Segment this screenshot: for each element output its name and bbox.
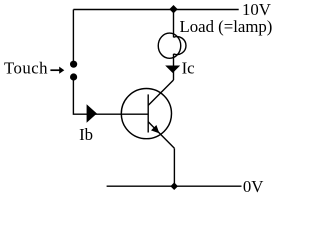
node: junction of emitter and 0V rail (diamond) bbox=[170, 182, 178, 190]
arrow: pointing at touch contacts, head bbox=[59, 67, 64, 74]
transistor Q1 base bar bbox=[147, 94, 149, 132]
svg-text:Load (=lamp): Load (=lamp) bbox=[180, 17, 273, 36]
svg-text:Ic: Ic bbox=[182, 58, 195, 77]
current arrow Ib (filled triangle on base wire) bbox=[87, 104, 97, 123]
transistor Q1 body circle bbox=[121, 89, 171, 139]
node: upper touch contact dot bbox=[70, 61, 77, 68]
node: junction of top rail and lamp branch (diamond) bbox=[169, 5, 177, 13]
lamp L1 bulb circle bbox=[158, 33, 181, 58]
wire: bottom 0V rail bbox=[107, 185, 242, 187]
wire: left branch from top rail down to upper touch contact bbox=[72, 10, 74, 65]
transistor Q1 emitter arrow bbox=[151, 125, 159, 133]
wire: lower touch contact down and right to transistor base bbox=[73, 77, 148, 114]
node: lower touch contact dot bbox=[70, 73, 77, 80]
svg-text:0V: 0V bbox=[243, 177, 264, 194]
transistor Q1 emitter lead (diagonal) bbox=[148, 122, 174, 149]
wire: lamp to transistor collector bbox=[173, 54, 175, 80]
wire: emitter down to 0V rail bbox=[173, 148, 175, 186]
wire: from junction down into lamp bbox=[173, 10, 175, 38]
arrow: pointing at touch contacts, shaft bbox=[50, 69, 60, 71]
lamp L1 filament loop arc bbox=[174, 37, 186, 55]
svg-text:10V: 10V bbox=[242, 0, 271, 19]
transistor Q1 collector lead (diagonal) bbox=[148, 80, 173, 105]
current arrow Ic (filled triangle on collector wire) bbox=[165, 66, 180, 74]
svg-text:Ib: Ib bbox=[79, 125, 93, 144]
wire: top 10V supply rail bbox=[73, 9, 238, 11]
svg-text:Touch: Touch bbox=[4, 58, 48, 77]
